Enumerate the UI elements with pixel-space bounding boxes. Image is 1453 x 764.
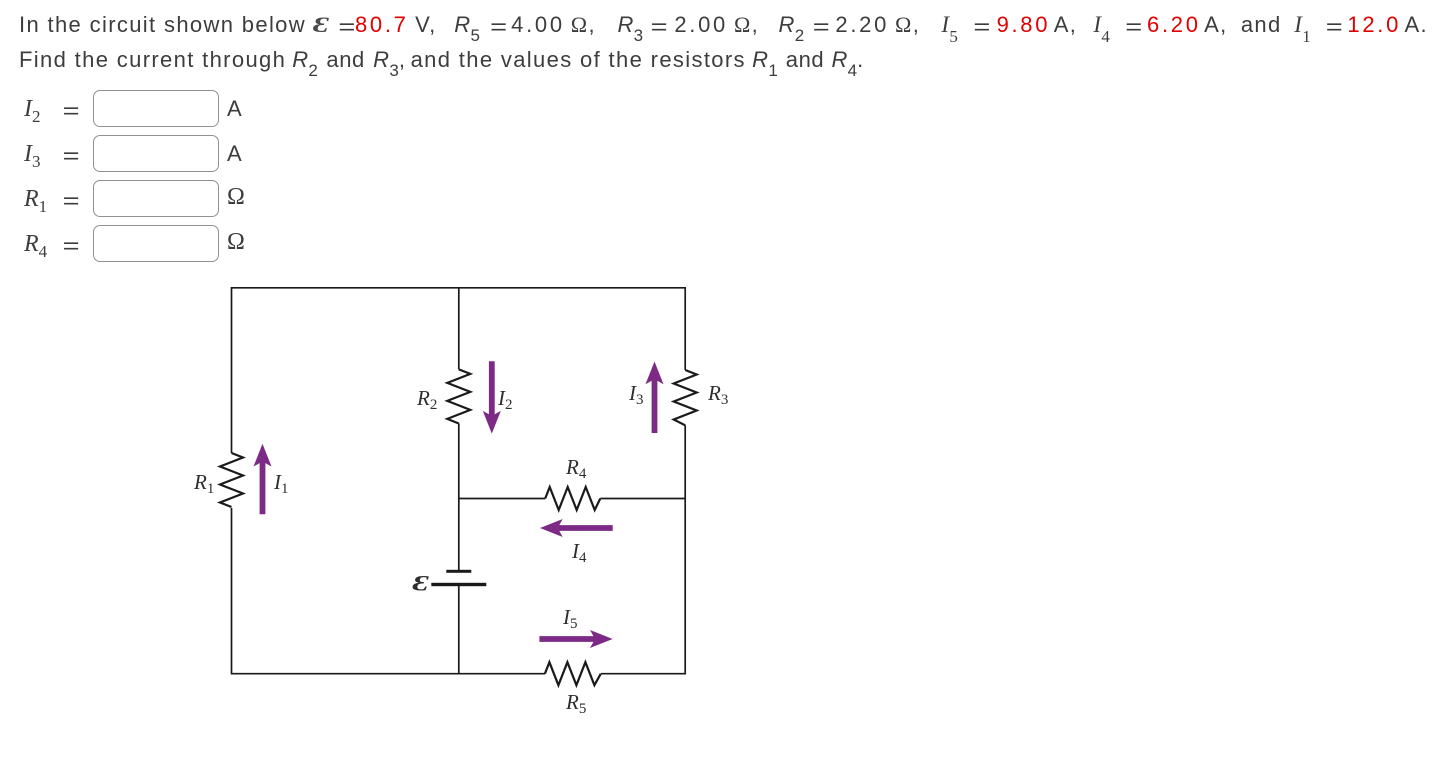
svg-text:Ɛ: Ɛ: [413, 571, 430, 596]
svg-text:R2: R2: [416, 386, 437, 413]
svg-text:R4: R4: [565, 455, 587, 482]
svg-text:R1: R1: [193, 470, 214, 497]
svg-text:I4: I4: [571, 539, 587, 566]
svg-text:I3: I3: [628, 381, 644, 408]
svg-text:I2: I2: [497, 386, 513, 413]
svg-text:R3: R3: [707, 381, 728, 408]
svg-text:I1: I1: [273, 470, 289, 497]
svg-text:I5: I5: [562, 605, 578, 632]
svg-text:R5: R5: [565, 690, 586, 717]
